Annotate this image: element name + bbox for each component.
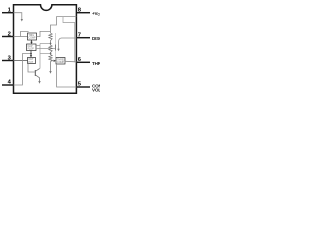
- ground arrow at pin 1: [21, 19, 23, 22]
- discharge transistor Q1 base rail: [55, 33, 57, 58]
- ground arrow Q2 emitter: [38, 81, 40, 84]
- pin 7 internal wire to Q1 collector: [59, 38, 77, 49]
- flip-flop box B: [27, 44, 37, 51]
- comparator bus vertical: [39, 44, 41, 69]
- pin 1 internal ground wire: [14, 13, 22, 20]
- pin 8 lead (+Vcc): [76, 12, 90, 14]
- transistor Q2 base wire from box C: [28, 64, 35, 73]
- transistor Q2 collector: [35, 69, 39, 72]
- wire junction1 to chain vertical: [40, 43, 51, 45]
- wire branch pin2 up to box A top: [21, 31, 29, 36]
- svg-text:PUT: PUT: [28, 61, 33, 64]
- wire box D to pin 6: [65, 60, 76, 63]
- pin 3 internal wire from output box C: [14, 60, 28, 62]
- transistor Q2 base bar: [34, 70, 36, 76]
- svg-text:THRESHOLD: THRESHOLD: [92, 61, 100, 66]
- comparator box A: [28, 33, 37, 40]
- output box C: [28, 58, 36, 64]
- internal Vcc rail wire: [51, 17, 77, 33]
- svg-text:COMP: COMP: [57, 61, 65, 64]
- pin 7 lead (DISCHARGE): [76, 37, 90, 39]
- junction node R1/R2: [50, 43, 52, 45]
- pin 6 lead (THRESHOLD): [76, 61, 90, 63]
- svg-text:FLOP: FLOP: [28, 47, 35, 50]
- pin 2 lead (TRIGGER): [2, 36, 14, 38]
- IC package outline U1 (DIP-8): [14, 5, 77, 94]
- pin 4 internal reset wire up to flip-flop chain: [14, 54, 32, 85]
- svg-text:7: 7: [78, 32, 81, 38]
- resistor R2 (divider middle): [49, 44, 52, 54]
- arrow flip-flop B to output box C: [30, 51, 32, 56]
- pin 3 lead (OUTPUT): [2, 60, 14, 62]
- Q1 emitter arrow: [57, 49, 59, 52]
- pin 5 lead (CONTROL VOLTAGE): [76, 86, 90, 88]
- junction dot reset/chain: [30, 53, 32, 55]
- wire Vcc branch to right-side bus: [63, 17, 75, 63]
- wire flip-flop lower stub / base wire to Q1: [36, 48, 56, 50]
- svg-text:2: 2: [8, 31, 11, 37]
- junction node R2/R3: [50, 53, 52, 55]
- resistor R1 (divider top): [49, 33, 52, 44]
- wire flip-flop upper stub: [36, 45, 40, 47]
- pin 4 lead (RESET): [2, 84, 14, 86]
- wire divider to box D with arrow: [51, 60, 54, 62]
- comparator box D: [56, 58, 65, 65]
- arrow box A to flip-flop B: [31, 40, 33, 42]
- pin 1 lead (GND): [2, 12, 14, 14]
- wire box D bottom to pin 5 (control voltage): [57, 64, 77, 87]
- resistor R3 (divider bottom): [49, 54, 52, 72]
- wire box A output to divider top: [37, 31, 51, 36]
- pin 2 internal wire to comparator box A: [14, 36, 28, 38]
- svg-text:+VCC: +VCC: [92, 11, 100, 17]
- transistor Q2 emitter: [35, 75, 39, 82]
- svg-text:COMP: COMP: [28, 37, 36, 40]
- wire junction2 to chain vertical: [40, 53, 51, 55]
- svg-text:DISCHARGE: DISCHARGE: [92, 36, 100, 41]
- ground arrow divider: [49, 71, 51, 74]
- svg-text:VOLTAGE: VOLTAGE: [92, 88, 100, 93]
